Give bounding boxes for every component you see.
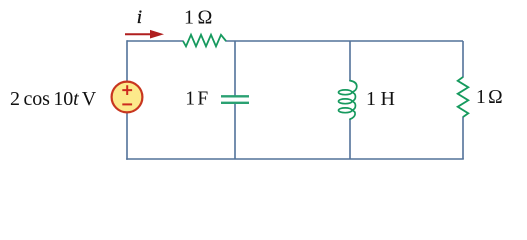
wire: bottom rail [126, 158, 464, 160]
voltage source minus terminal [122, 103, 132, 105]
current arrow i (red) [125, 33, 151, 35]
resistor R1 1ohm (top, zigzag) [183, 35, 226, 47]
svg-text:1 F: 1 F [185, 89, 208, 110]
wire: right branch upper [462, 41, 464, 78]
wire: capacitor branch upper [234, 41, 236, 96]
svg-text:1 Ω: 1 Ω [476, 87, 503, 108]
svg-text:1 Ω: 1 Ω [184, 7, 212, 29]
wire: left branch vertical (through source) [126, 40, 128, 160]
voltage source VS (2 cos 10t V) circle [112, 82, 143, 113]
wire: right branch lower [462, 117, 464, 160]
inductor L1 1H (coil) [339, 81, 357, 120]
svg-text:i: i [137, 7, 142, 28]
wire: top rail right segment (resistor R to right corner) [226, 40, 464, 42]
svg-text:1 H: 1 H [366, 88, 395, 110]
wire: inductor branch upper [349, 41, 351, 81]
wire: capacitor branch lower [234, 103, 236, 159]
capacitor C1 1F plates [221, 95, 249, 97]
wire: inductor branch lower [349, 119, 351, 159]
svg-text:2 cos 10t V: 2 cos 10t V [10, 88, 97, 110]
voltage source plus terminal [122, 85, 132, 95]
resistor R2 1ohm (right, vertical zigzag) [458, 77, 469, 117]
wire: top rail left segment (node A to resistor R) [127, 40, 184, 42]
